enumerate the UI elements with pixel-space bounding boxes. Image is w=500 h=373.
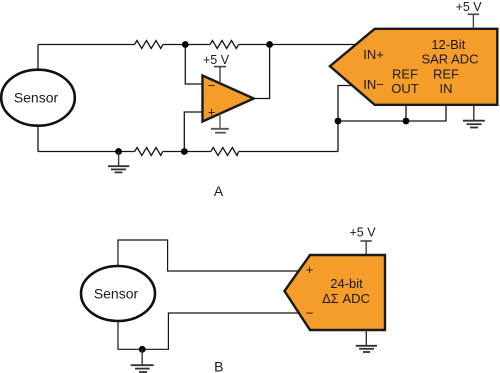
node junction sensor B ground [139, 346, 146, 353]
wire top rail segment 2 [163, 44, 210, 46]
svg-text:Sensor: Sensor [14, 90, 59, 106]
node junction top-right [266, 41, 273, 48]
wire bottom rail segment 3 [239, 151, 338, 153]
resistor R4 [211, 148, 239, 156]
sensor (circuit B) [81, 266, 155, 321]
svg-text:−: − [306, 306, 314, 321]
svg-text:+5 V: +5 V [203, 53, 230, 67]
svg-text:IN+: IN+ [363, 47, 384, 62]
svg-text:IN−: IN− [363, 77, 384, 92]
power +5 V (24-bit ADC) [349, 226, 376, 254]
resistor R2 [210, 41, 239, 49]
wire sensor B top to ADC + [118, 240, 299, 271]
ground (SAR ADC) [463, 105, 485, 128]
power +5 V (op-amp) [203, 53, 230, 83]
node junction bottom mid [181, 148, 188, 155]
svg-text:+: + [208, 105, 216, 120]
wire top rail segment 1 [38, 44, 135, 46]
ADC U2 12-Bit SAR [330, 29, 497, 105]
ADC U3 24-bit delta-sigma [285, 255, 386, 330]
wire REF OUT drop [405, 105, 407, 121]
wire bottom rail segment 1 [38, 151, 135, 153]
op-amp U1 [203, 76, 254, 122]
wire REF rail [338, 105, 446, 121]
ground (24-bit ADC) [356, 329, 377, 352]
ground (sensor B) [131, 349, 154, 372]
node junction top-left [182, 41, 189, 48]
node junction REF OUT [403, 118, 410, 125]
svg-text:12-Bit: 12-Bit [431, 37, 465, 52]
resistor R3 [135, 148, 163, 156]
sensor (circuit A) [1, 70, 75, 126]
wire top rail segment 3 to ADC IN+ [239, 44, 356, 46]
ground (op-amp) [211, 114, 229, 133]
svg-text:SAR ADC: SAR ADC [421, 52, 478, 67]
wire op-amp output feedback [253, 45, 270, 99]
svg-text:REF: REF [392, 67, 418, 82]
svg-text:OUT: OUT [391, 81, 419, 96]
svg-text:ΔΣ ADC: ΔΣ ADC [322, 291, 370, 306]
svg-text:IN: IN [440, 81, 453, 96]
wire to op-amp non-inverting input [184, 112, 202, 152]
resistor R1 [135, 41, 164, 49]
svg-text:−: − [208, 78, 216, 93]
svg-text:+: + [306, 262, 314, 277]
svg-text:24-bit: 24-bit [330, 276, 363, 291]
wire bottom rail segment 2 [163, 151, 211, 153]
node junction bottom ground tap [115, 148, 122, 155]
wire sensor B bottom to ADC - [118, 313, 299, 349]
svg-text:Sensor: Sensor [94, 285, 139, 301]
svg-text:+5 V: +5 V [456, 0, 483, 14]
wire sensor A top riser [37, 45, 39, 71]
svg-text:B: B [214, 359, 223, 373]
svg-text:+5 V: +5 V [349, 226, 376, 240]
svg-text:REF: REF [433, 67, 459, 82]
ground (bottom rail) [108, 152, 129, 173]
wire sensor A bottom riser [37, 126, 39, 152]
svg-text:A: A [214, 183, 224, 199]
node junction REF rail left [335, 118, 342, 125]
power +5 V (SAR ADC) [456, 0, 483, 28]
wire right riser to IN- [338, 86, 353, 152]
wire to op-amp inverting input [185, 45, 202, 85]
